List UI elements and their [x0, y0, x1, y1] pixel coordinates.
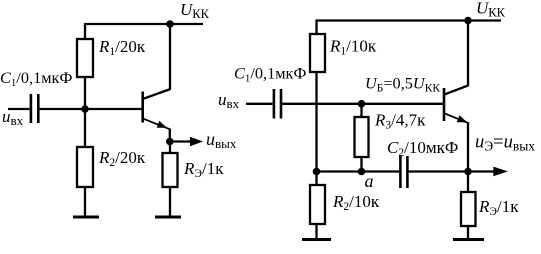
- wire: Re bottom to ground (right): [467, 226, 469, 239]
- wire: input stub (right): [246, 103, 273, 105]
- wire: C1 to base: [39, 108, 142, 110]
- node: right Ukk junction dot: [464, 17, 472, 25]
- node: left Ukk junction dot: [166, 20, 174, 28]
- node: emitter output dot (right): [464, 168, 472, 176]
- resistor R1 (right) box: [310, 34, 325, 72]
- resistor R1 (left) box: [77, 39, 93, 77]
- node: dot node a (R3 bottom): [358, 168, 366, 176]
- svg-text:R2/20к: R2/20к: [98, 148, 146, 169]
- svg-text:a: a: [365, 171, 374, 191]
- ground (right R2): [302, 238, 331, 241]
- svg-text:C1/0,1мкФ: C1/0,1мкФ: [234, 64, 306, 85]
- wire: output arrow (left): [170, 137, 203, 146]
- node: left base junction dot: [81, 105, 89, 113]
- wire: input stub (left): [8, 108, 30, 110]
- resistor R3 box: [355, 117, 369, 157]
- ground (left Re): [155, 216, 181, 219]
- capacitor C1 (right) plates: [274, 89, 281, 119]
- ground (right Re): [453, 238, 484, 241]
- node: dot at R1/R2 column on node-a wire: [313, 168, 321, 176]
- resistor R2 (left) box: [77, 147, 93, 187]
- transistor Q1 (left, NPN): [143, 89, 171, 129]
- svg-text:RЭ/1к: RЭ/1к: [183, 159, 224, 180]
- wire: emitter down to output node (right): [467, 122, 469, 172]
- wire: rail to R1 top: [84, 23, 86, 40]
- wire: Re bottom to ground (left): [169, 187, 171, 217]
- node: emitter output dot (left): [166, 138, 174, 146]
- wire: R1 bottom to base node: [84, 77, 86, 112]
- wire: Re top stub (right): [467, 172, 469, 194]
- wire: node a horizontal (left part): [317, 170, 400, 172]
- wire: R2 bottom to ground (left): [84, 187, 86, 217]
- resistor R2 (right) box: [310, 185, 325, 224]
- svg-text:R1/20к: R1/20к: [98, 37, 146, 58]
- svg-text:R3/4,7к: R3/4,7к: [374, 111, 426, 132]
- wire: right top rail: [317, 19, 502, 21]
- wire: left top rail: [85, 23, 203, 25]
- capacitor C2 plates: [400, 156, 407, 188]
- wire: node to Re top (left): [169, 142, 171, 155]
- transistor Q2 (right, NPN): [444, 85, 469, 123]
- wire: collector up to rail (left): [169, 24, 171, 90]
- wire: rail to R1 top (right): [315, 20, 317, 36]
- wire: collector up to rail (right): [467, 21, 469, 87]
- wire: base node down to R2 (left): [84, 109, 86, 148]
- resistor Re (right) box: [461, 192, 476, 226]
- wire: emitter down to output node (left): [169, 129, 171, 142]
- svg-text:R1/10к: R1/10к: [329, 37, 377, 58]
- wire: output arrow (right): [468, 167, 508, 177]
- ground (left R2): [73, 216, 99, 219]
- wire: C1 to base (right): [282, 103, 443, 105]
- wire: C2 to emitter node: [409, 170, 469, 172]
- svg-text:RЭ/1к: RЭ/1к: [478, 197, 519, 218]
- wire: R2 top stub (right): [315, 172, 317, 187]
- svg-text:C1/0,1мкФ: C1/0,1мкФ: [0, 68, 72, 89]
- wire: R1 bottom down to node a (crosses base wire): [315, 72, 317, 172]
- wire: R3 top stub: [360, 104, 362, 118]
- wire: R2 bottom to ground (right): [315, 224, 317, 239]
- wire: R3 bottom to node a wire: [360, 157, 362, 172]
- resistor Re (left) box: [163, 153, 178, 187]
- node: R3 top junction dot: [358, 100, 366, 108]
- capacitor C1 (left) plates: [31, 94, 38, 123]
- svg-text:C2/10мкФ: C2/10мкФ: [387, 138, 458, 159]
- svg-text:R2/10к: R2/10к: [332, 192, 380, 213]
